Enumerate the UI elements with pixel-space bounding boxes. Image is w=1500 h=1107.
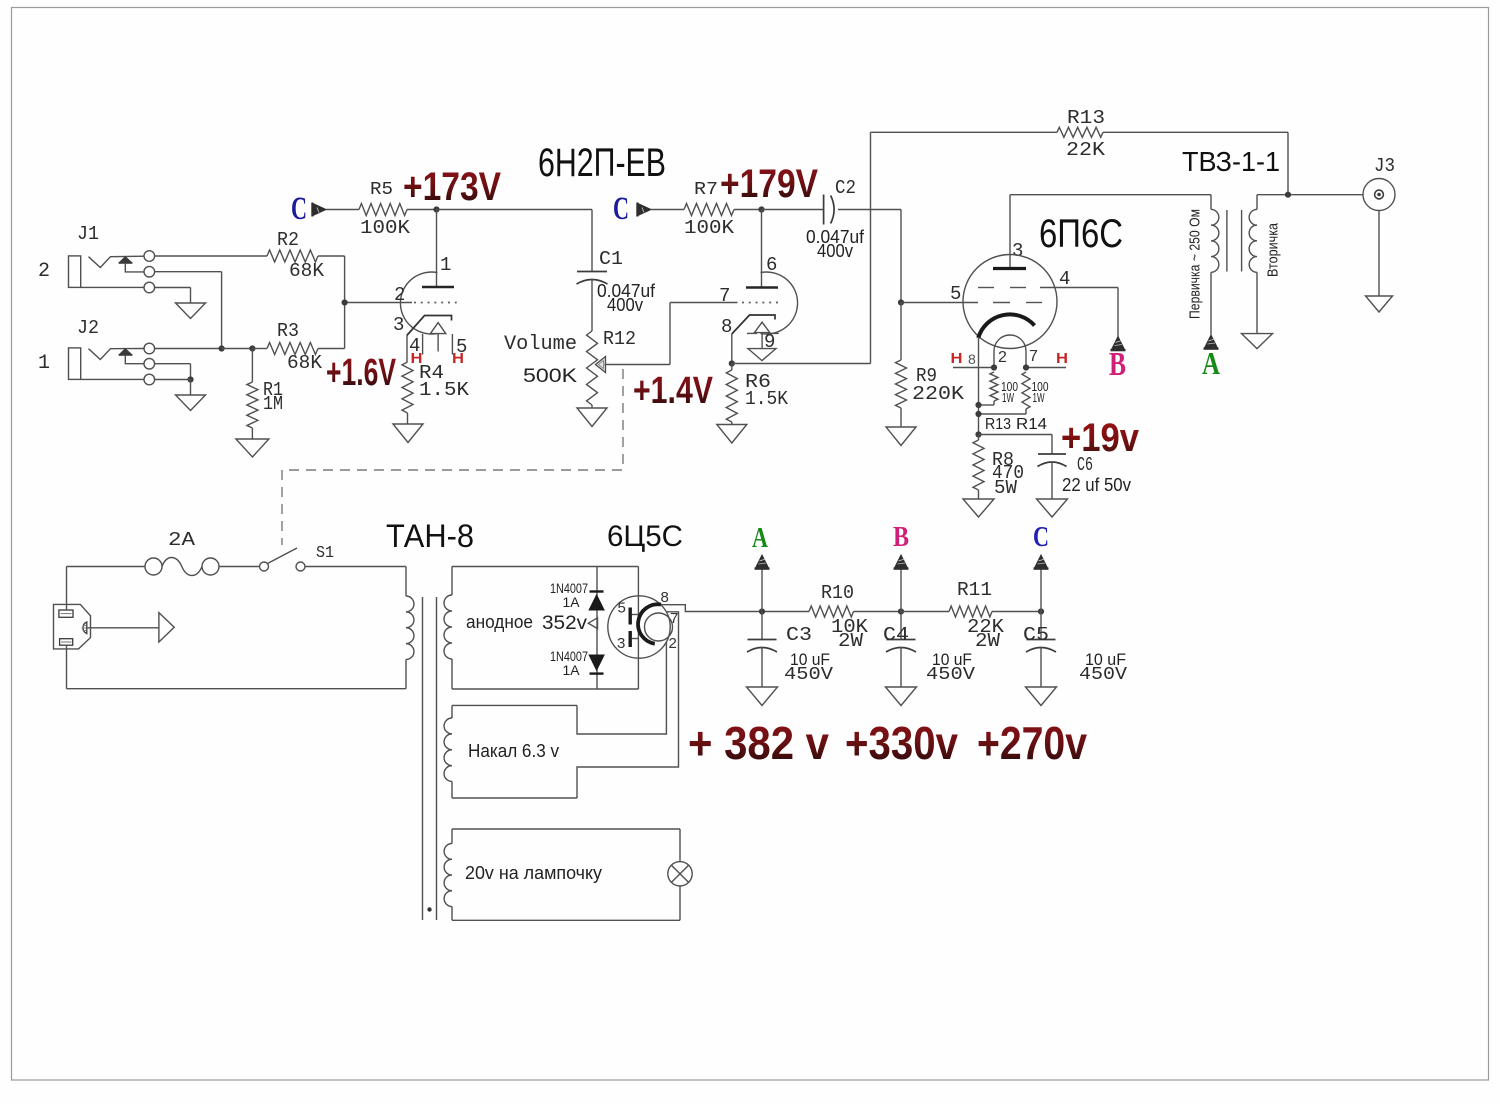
svg-text:1W: 1W — [1002, 390, 1014, 405]
wire — [1257, 194, 1363, 196]
svg-text:1.5K: 1.5K — [419, 379, 470, 401]
resistor R13 (feedback) — [871, 107, 1289, 161]
svg-text:C2: C2 — [835, 177, 856, 199]
svg-text:Вторичка: Вторичка — [1265, 222, 1282, 277]
svg-text:R13: R13 — [1067, 107, 1105, 129]
wire — [155, 348, 222, 350]
svg-text:H: H — [1056, 350, 1068, 367]
svg-text:+179V: +179V — [720, 162, 818, 206]
node C (input tap 2) — [613, 191, 651, 227]
diode D1 1N4007 — [588, 592, 605, 611]
node — [1038, 608, 1044, 614]
fuse 2A — [145, 558, 219, 576]
svg-text:2: 2 — [998, 349, 1007, 366]
jack J1 body — [69, 256, 81, 288]
label C6 value — [1062, 475, 1131, 495]
svg-text:500K: 500K — [523, 366, 577, 387]
wire — [1040, 647, 1042, 687]
svg-text:R7: R7 — [694, 180, 718, 200]
pin 6 label — [766, 254, 777, 276]
svg-text:22 uf 50v: 22 uf 50v — [1062, 475, 1131, 495]
ground — [577, 408, 607, 427]
label B — [1109, 346, 1126, 383]
ground — [176, 395, 206, 411]
svg-text:1A: 1A — [563, 662, 581, 678]
plug pin bottom — [60, 639, 73, 646]
node B tap (filter) — [894, 555, 909, 612]
center tap arrow — [588, 618, 597, 629]
label Nakal — [468, 741, 559, 761]
resistor R5 — [359, 180, 411, 239]
tube V2 envelope — [963, 255, 1057, 349]
label A — [752, 522, 768, 554]
svg-text:J1: J1 — [77, 223, 99, 245]
pin 8 label — [968, 351, 976, 367]
svg-text:4: 4 — [1059, 268, 1070, 290]
svg-text:ТАН-8: ТАН-8 — [386, 518, 474, 554]
pin 5 label — [618, 600, 626, 617]
tube V2 heater loop — [994, 335, 1026, 368]
wire cathode lead — [978, 337, 980, 435]
svg-text:1: 1 — [440, 254, 451, 276]
wire — [1378, 211, 1380, 297]
wire — [731, 334, 733, 364]
label +179V — [720, 162, 818, 206]
lamp box outline — [452, 829, 680, 920]
node cathode bias — [975, 431, 981, 437]
svg-text:C1: C1 — [599, 248, 623, 270]
jack J1 switch arrow — [119, 257, 144, 272]
svg-text:R5: R5 — [370, 180, 393, 200]
tube V2 screen grid — [978, 287, 1118, 289]
label C1 value — [597, 281, 656, 315]
dashed link volume-switch — [282, 369, 623, 545]
ground — [717, 425, 747, 444]
ground — [176, 303, 206, 319]
tube V1a envelope — [400, 272, 437, 334]
jack J1 sleeve contact — [81, 282, 155, 293]
chassis arrow — [159, 613, 174, 642]
jack J2 sleeve contact — [81, 374, 155, 385]
pin 5 label — [456, 336, 467, 358]
pin 8 label — [721, 316, 732, 338]
heater wire H right — [1026, 367, 1066, 369]
svg-text:7: 7 — [1029, 348, 1038, 365]
ground — [1037, 499, 1068, 517]
wire — [67, 688, 407, 690]
ground — [747, 687, 778, 706]
tube V1b heater — [747, 322, 779, 348]
wire — [854, 611, 902, 613]
capacitor C5 — [1023, 612, 1056, 653]
wire — [1287, 132, 1289, 194]
svg-text:5: 5 — [950, 283, 961, 305]
node C (input tap 1) — [291, 191, 326, 227]
transformer T1 core — [423, 597, 437, 920]
svg-text:S1: S1 — [316, 544, 334, 563]
node grid junction — [342, 299, 348, 305]
tube V3 heater circle — [645, 613, 673, 641]
tube V1a grid — [345, 302, 461, 304]
svg-text:1.5K: 1.5K — [745, 388, 789, 410]
svg-text:H: H — [452, 350, 464, 367]
jack J2 tip contact — [144, 343, 155, 354]
label 1 (input 1) — [38, 352, 50, 375]
node screen junction — [898, 299, 904, 305]
pin 4 label — [1059, 268, 1070, 290]
tube V3 envelope — [608, 596, 670, 658]
heater H labels — [411, 350, 465, 367]
svg-text:B: B — [893, 521, 909, 553]
label H left — [951, 350, 963, 367]
ground — [886, 427, 916, 446]
wire — [901, 611, 949, 613]
wire — [732, 363, 871, 365]
ground — [886, 687, 917, 706]
resistor R6 — [726, 364, 788, 423]
tube V1a cathode — [407, 316, 452, 336]
heater box outline — [452, 705, 577, 798]
label C4 value — [926, 650, 975, 685]
resistor R3 — [252, 320, 344, 374]
jack J1 label — [77, 223, 99, 245]
svg-text:1A: 1A — [563, 594, 581, 610]
node +173V junction — [433, 206, 439, 212]
svg-text:R2: R2 — [277, 229, 299, 251]
wire — [591, 405, 593, 408]
lamp — [668, 862, 692, 886]
node pin7 — [1023, 364, 1029, 370]
ground — [393, 424, 423, 443]
label +330v — [845, 717, 958, 769]
label +1.6V — [326, 352, 396, 394]
svg-text:2: 2 — [669, 635, 677, 652]
label +382v — [688, 717, 829, 769]
svg-text:68K: 68K — [287, 352, 323, 374]
wire — [731, 422, 733, 425]
wire — [978, 490, 980, 499]
wire — [979, 434, 1053, 436]
svg-text:400v: 400v — [817, 241, 853, 261]
svg-text:A: A — [752, 522, 768, 554]
label TVZ-1-1 — [1182, 146, 1280, 177]
svg-text:8: 8 — [968, 351, 976, 367]
label 6N2P-EV tube name — [538, 141, 666, 185]
svg-text:R3: R3 — [277, 320, 299, 342]
svg-text:352v: 352v — [542, 613, 588, 634]
svg-text:B: B — [1109, 346, 1126, 383]
transformer T1 primary — [406, 567, 414, 689]
wire — [838, 210, 901, 303]
wire — [326, 209, 359, 211]
wire — [155, 380, 191, 396]
switch S1 — [260, 548, 306, 571]
wire — [407, 413, 409, 424]
capacitor C2 — [824, 177, 856, 225]
labels R13 R14 — [985, 416, 1047, 433]
pin 7 label — [719, 285, 730, 307]
node pin2 — [991, 364, 997, 370]
svg-text:C5: C5 — [1023, 624, 1049, 646]
wire — [305, 566, 406, 568]
svg-text:J3: J3 — [1374, 155, 1395, 177]
pin 3 label — [617, 635, 625, 652]
svg-text:6Ц5С: 6Ц5С — [607, 520, 683, 553]
svg-text:6П6С: 6П6С — [1039, 212, 1123, 256]
svg-text:Volume: Volume — [504, 333, 577, 356]
wire — [155, 288, 191, 304]
transformer T2 secondary — [1249, 195, 1257, 334]
label A — [1202, 345, 1220, 381]
label C2 value — [806, 227, 865, 261]
jack J3 — [1363, 179, 1395, 211]
tube V1b cathode — [732, 315, 775, 334]
plug pin top — [59, 610, 73, 617]
svg-text:1M: 1M — [263, 393, 283, 415]
ground — [1366, 296, 1393, 312]
node — [187, 376, 193, 382]
svg-text:+270v: +270v — [977, 717, 1087, 769]
ground — [1026, 687, 1057, 706]
pin 2 label — [394, 284, 405, 306]
wire — [251, 428, 253, 439]
svg-text:C: C — [291, 191, 307, 227]
wire — [407, 209, 437, 211]
svg-text:C: C — [1033, 521, 1049, 553]
wire — [1051, 462, 1053, 500]
label C — [1033, 521, 1049, 553]
plug pin earth — [82, 622, 87, 634]
wire — [761, 647, 763, 687]
transformer T1 lamp winding — [444, 829, 452, 920]
svg-text:A: A — [1202, 345, 1220, 381]
label D1 — [550, 580, 588, 610]
pin 9 label — [764, 331, 775, 353]
node A tap (under primary) — [1204, 335, 1219, 349]
node C tap (filter) — [1034, 555, 1049, 612]
jack J2 switch contact — [144, 358, 155, 369]
wire — [67, 566, 146, 568]
jack J2 tip spring — [89, 349, 145, 360]
pin 1 label — [440, 254, 451, 276]
tube V3 cathode — [638, 604, 661, 643]
svg-text:6Н2П-ЕВ: 6Н2П-ЕВ — [538, 141, 666, 185]
label H right — [1056, 350, 1068, 367]
resistor R13 (100 ohm hum left) — [979, 372, 1019, 405]
node — [758, 206, 764, 212]
label 500K — [523, 366, 577, 387]
wire — [651, 209, 684, 211]
wire earth — [87, 627, 159, 629]
svg-text:R13: R13 — [985, 416, 1011, 433]
wire — [992, 611, 1041, 613]
svg-text:R11: R11 — [957, 579, 992, 601]
svg-text:5: 5 — [618, 600, 626, 617]
tube V2 cathode — [978, 314, 1034, 338]
svg-text:7: 7 — [719, 285, 730, 307]
svg-text:3: 3 — [393, 314, 404, 336]
svg-text:анодное: анодное — [466, 612, 533, 632]
jack J1 tip contact — [144, 251, 155, 262]
node cathode junction — [729, 360, 735, 366]
wire pin 2 — [577, 642, 666, 735]
svg-text:C4: C4 — [883, 624, 909, 646]
resistor R14 (100 ohm hum right) — [979, 372, 1049, 414]
svg-text:ТВЗ-1-1: ТВЗ-1-1 — [1182, 146, 1280, 177]
tube V1b grid — [742, 302, 783, 304]
label 6P6S tube name — [1039, 212, 1123, 256]
label anodnoe — [466, 612, 588, 634]
heater wire H left — [953, 367, 994, 369]
svg-text:450V: 450V — [1079, 665, 1127, 685]
pin 5 label — [950, 283, 961, 305]
ground — [1242, 334, 1273, 349]
wire — [344, 256, 346, 349]
capacitor C4 — [883, 612, 916, 653]
tube V2 control grid — [901, 302, 1042, 304]
svg-text:Накал 6.3 v: Накал 6.3 v — [468, 741, 559, 761]
label +173V — [403, 165, 501, 209]
svg-text:1: 1 — [38, 352, 50, 375]
jack J2 body — [69, 348, 81, 380]
wire feedback riser — [870, 132, 872, 363]
label TAN-8 — [386, 518, 474, 554]
label 6Ts5S tube name — [607, 520, 683, 553]
svg-text:2: 2 — [394, 284, 405, 306]
transformer T1 heater winding — [444, 705, 452, 798]
svg-text:3: 3 — [617, 635, 625, 652]
mains plug — [54, 604, 91, 649]
ground — [748, 349, 776, 361]
label +1.4V — [633, 370, 714, 412]
label Vtorichka — [1265, 222, 1282, 277]
transformer T2 core — [1227, 210, 1242, 272]
label Volume — [504, 333, 577, 356]
node — [219, 345, 225, 351]
svg-text:2A: 2A — [168, 529, 196, 551]
label 2 (input 2) — [38, 260, 50, 283]
tube V1a plate — [422, 210, 454, 288]
ground — [236, 439, 269, 457]
svg-text:2W: 2W — [975, 630, 1001, 652]
wire — [900, 647, 902, 687]
wire — [219, 566, 260, 568]
wire — [605, 303, 738, 365]
node — [249, 345, 255, 351]
wire pin4 to B — [1117, 288, 1119, 337]
capacitor C3 — [747, 612, 812, 653]
label 2A — [168, 529, 196, 551]
resistor R8 — [973, 435, 1024, 500]
svg-text:C6: C6 — [1077, 454, 1093, 476]
svg-text:+ 382 v: + 382 v — [688, 717, 829, 769]
node — [759, 608, 765, 614]
svg-text:8: 8 — [721, 316, 732, 338]
wire — [66, 645, 68, 689]
ground — [963, 499, 994, 517]
tube V2 plate — [993, 195, 1026, 269]
label +19v — [1061, 416, 1140, 460]
jack J2 label — [77, 317, 99, 339]
pin 3 label — [393, 314, 404, 336]
wire plate rail — [1010, 194, 1211, 196]
label +270v — [977, 717, 1087, 769]
wire — [734, 209, 762, 211]
svg-text:100K: 100K — [360, 217, 411, 239]
wire — [155, 272, 222, 349]
wire — [762, 209, 824, 211]
pin 2 label — [669, 635, 677, 652]
label 20v — [465, 863, 602, 883]
pin 3 label — [1012, 240, 1023, 262]
svg-text:+19v: +19v — [1061, 416, 1140, 460]
diode D2 1N4007 — [588, 655, 605, 674]
label C5 value — [1079, 650, 1127, 685]
transformer T2 primary — [1211, 195, 1219, 335]
svg-text:C: C — [613, 191, 629, 227]
transformer T1 anode winding — [444, 567, 452, 690]
pin 7 label — [670, 610, 678, 627]
node — [975, 402, 981, 408]
svg-text:1W: 1W — [1033, 390, 1045, 405]
svg-text:+1.4V: +1.4V — [633, 370, 714, 412]
resistor R1 — [247, 349, 283, 429]
svg-text:20v на лампочку: 20v на лампочку — [465, 863, 602, 883]
pot R12 wiper — [596, 357, 606, 373]
svg-text:2: 2 — [38, 260, 50, 283]
svg-text:R14: R14 — [1016, 416, 1047, 433]
tube V1b plate — [746, 210, 778, 288]
svg-text:H: H — [951, 350, 963, 367]
tube V1a heater — [423, 323, 453, 355]
wire — [900, 408, 902, 427]
resistor R11 — [949, 579, 1005, 652]
capacitor C6 — [1038, 435, 1094, 477]
svg-text:R12: R12 — [603, 328, 636, 350]
jack J1 tip spring — [89, 256, 145, 267]
pin 4 label — [409, 335, 420, 357]
pin 7 label — [1029, 348, 1038, 365]
pin 2 label — [998, 349, 1007, 366]
node B tap — [1111, 337, 1126, 351]
wire B+ rail — [762, 611, 809, 613]
resistor R10 — [809, 582, 869, 652]
tube V3 plate 3 — [630, 631, 638, 647]
wire pin 8 — [661, 605, 762, 612]
svg-text:+330v: +330v — [845, 717, 958, 769]
label S1 — [316, 544, 334, 563]
svg-text:22K: 22K — [1066, 139, 1106, 161]
tube V1b envelope — [761, 272, 798, 334]
anode box outline — [452, 567, 638, 690]
potentiometer R12 — [587, 328, 637, 405]
wire — [222, 348, 253, 350]
diode chain wire — [596, 567, 598, 690]
resistor R7 — [684, 180, 735, 239]
capacitor C1 — [577, 210, 624, 285]
svg-text:C3: C3 — [786, 624, 812, 646]
label J3 — [1374, 155, 1395, 177]
resistor R2 — [155, 229, 345, 282]
node — [1285, 192, 1291, 198]
svg-text:400v: 400v — [607, 295, 643, 315]
jack J1 switch contact — [144, 266, 155, 277]
svg-text:8: 8 — [661, 589, 669, 606]
svg-text:450V: 450V — [926, 665, 975, 685]
svg-text:R10: R10 — [821, 582, 854, 604]
svg-text:+1.6V: +1.6V — [326, 352, 396, 394]
phase dot — [427, 907, 431, 911]
